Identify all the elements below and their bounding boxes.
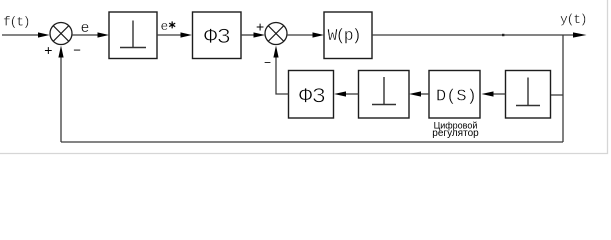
sampler symbol in block 6 [383,77,385,105]
sampler block 4 (bottom right) [506,71,551,119]
block D(S) digital regulator [429,71,480,119]
summing junction 1 [50,23,72,45]
wire outer feedback left vertical to summing junction 1 [60,57,62,142]
svg-text:+: + [44,42,52,58]
wire FZ bottom to summing junction 2 (feedback up) [276,57,289,94]
svg-text:ФЗ: ФЗ [299,85,325,110]
svg-text:e✱: e✱ [161,18,177,35]
wire summing junction 1 to sampler block 1 [72,34,99,36]
sampler block 6 (bottom middle) [359,71,410,119]
summing junction 2 [265,23,287,45]
block FZ (bottom) [289,71,334,119]
junction tick on output line [502,34,504,36]
svg-text:W(p): W(p) [328,26,360,45]
svg-text:f(t): f(t) [3,15,29,30]
wire sampler block 6 to FZ block (bottom) [346,93,359,95]
wire summing junction 2 to W(p) block [287,34,313,36]
sampler symbol in block 4 [527,78,529,106]
wire branch down from output line [562,35,564,142]
svg-text:−: − [73,43,81,58]
svg-text:D(S): D(S) [436,88,477,107]
wire D(S) to sampler block 6 [420,93,429,95]
block W(p) [324,12,372,59]
sampler block 1 [109,12,157,59]
svg-text:ФЗ: ФЗ [204,25,230,50]
wire input f(t) to summing junction 1 [2,34,39,36]
sampler symbol in block 1 [132,21,134,48]
wire W(p) output to y(t) arrow [372,34,575,36]
svg-text:+: + [256,19,264,35]
svg-text:y(t): y(t) [560,12,586,27]
wire stub into sampler block 4 [551,94,564,96]
wire sampler block 4 to D(S) block [492,93,506,95]
wire sampler block 1 to FZ block [157,34,182,36]
svg-text:−: − [264,56,271,70]
svg-text:регулятор: регулятор [432,128,479,139]
wire outer feedback bottom line [61,141,563,143]
wire FZ block to summing junction 2 [241,34,255,36]
block FZ (top) [193,12,242,59]
frame border bottom-right [0,0,608,154]
